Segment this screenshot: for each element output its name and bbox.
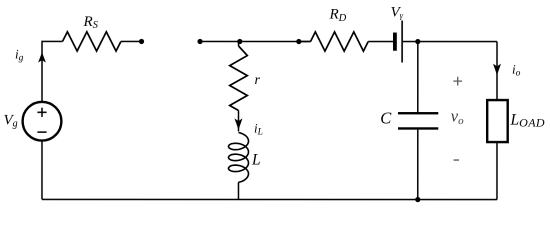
node dot before RD	[296, 39, 301, 44]
resistor r (vertical)	[230, 46, 248, 111]
wire: r to inductor	[237, 41, 239, 131]
battery Vgamma negative plate (thick short)	[393, 33, 397, 51]
wire: RD to battery	[368, 41, 393, 43]
wire: left branch bottom (Vg to rail)	[41, 141, 43, 199]
current arrow ig	[38, 52, 46, 62]
wire: bottom rail	[42, 198, 497, 200]
capacitor C bottom plate	[398, 127, 438, 129]
junction dot on bottom rail	[415, 197, 420, 202]
svg-text:r: r	[255, 73, 261, 88]
wire: inductor to rail	[237, 182, 239, 199]
resistor RS	[63, 32, 121, 51]
wire: load to rail	[496, 142, 498, 200]
node dot at capacitor branch top	[415, 39, 420, 44]
wire: top middle rail	[200, 40, 310, 42]
capacitor C top plate	[398, 112, 438, 114]
resistor RD	[311, 32, 369, 51]
label minus (vo polarity)	[454, 159, 459, 161]
source Vg	[23, 102, 62, 141]
minus marking inside Vg	[37, 131, 46, 133]
node dot at r branch	[237, 39, 242, 44]
wire: right branch top	[496, 42, 498, 100]
wire: battery to top-right corner	[403, 41, 497, 43]
wire: capacitor branch upper	[417, 42, 419, 112]
terminal dot left of gap	[139, 39, 144, 44]
svg-text:L: L	[251, 152, 261, 169]
wire: node to RD	[299, 41, 311, 43]
battery Vgamma positive plate (thin long)	[401, 21, 403, 63]
inductor L coil	[228, 133, 248, 183]
current arrow io	[493, 64, 501, 75]
load rectangle	[487, 100, 508, 142]
wire: RS to open terminal	[121, 40, 142, 42]
label plus (vo polarity)	[453, 77, 462, 86]
plus marking inside Vg	[37, 108, 46, 117]
wire: left branch top (Vg up to corner)	[42, 41, 63, 101]
wire: capacitor branch lower	[417, 130, 419, 200]
svg-text:C: C	[380, 109, 392, 128]
current arrow iL	[234, 118, 242, 129]
terminal dot right of gap	[197, 39, 202, 44]
